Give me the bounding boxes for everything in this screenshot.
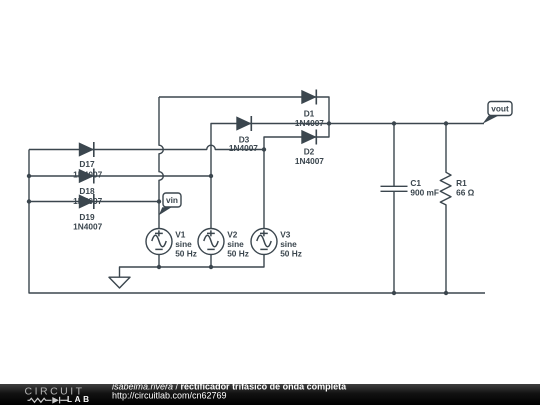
svg-text:50 Hz: 50 Hz [280, 249, 302, 259]
svg-text:sine: sine [280, 239, 297, 249]
svg-text:sine: sine [227, 239, 244, 249]
svg-text:vin: vin [166, 195, 178, 205]
svg-text:1N4007: 1N4007 [73, 221, 102, 231]
svg-text:V1: V1 [175, 229, 186, 239]
svg-text:D18: D18 [79, 186, 95, 196]
svg-text:D17: D17 [79, 159, 95, 169]
svg-text:LAB: LAB [67, 395, 92, 404]
svg-text:66 Ω: 66 Ω [456, 187, 475, 197]
svg-text:50 Hz: 50 Hz [175, 249, 197, 259]
svg-text:V2: V2 [227, 229, 238, 239]
svg-text:50 Hz: 50 Hz [227, 249, 249, 259]
svg-text:http://circuitlab.com/cn62769: http://circuitlab.com/cn62769 [112, 391, 227, 401]
svg-text:sine: sine [175, 239, 192, 249]
svg-text:1N4007: 1N4007 [229, 143, 258, 153]
svg-text:D2: D2 [304, 146, 315, 156]
svg-text:1N4007: 1N4007 [295, 156, 324, 166]
svg-text:D19: D19 [79, 212, 95, 222]
svg-text:900 mF: 900 mF [410, 187, 439, 197]
svg-text:D1: D1 [304, 109, 315, 119]
svg-text:V3: V3 [280, 229, 291, 239]
svg-text:1N4007: 1N4007 [295, 118, 324, 128]
svg-text:vout: vout [491, 104, 509, 114]
